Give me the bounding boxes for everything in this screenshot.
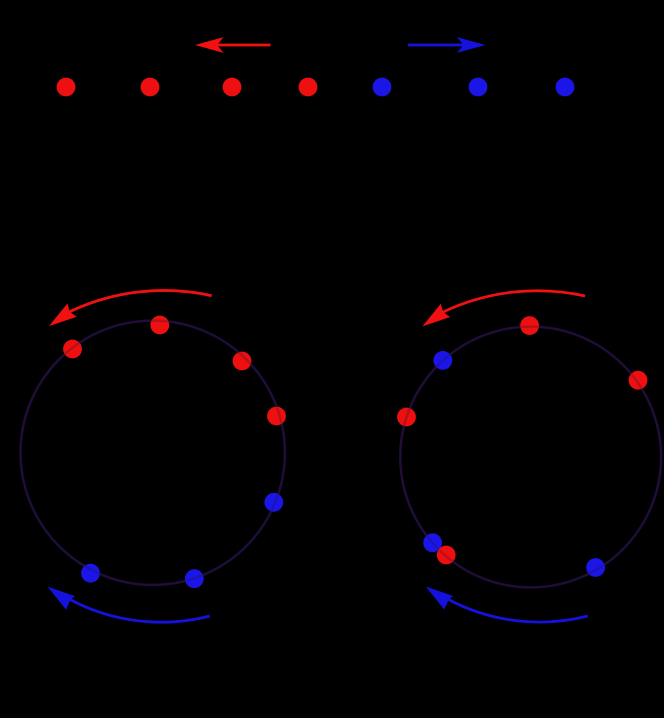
right ring red particle bottom-left (overlapping) — [437, 546, 456, 565]
left ring outline (over layer) — [21, 321, 285, 585]
left ring blue particle right — [264, 493, 283, 512]
right ring red curved arrow (top) — [443, 291, 585, 312]
right ring outline (over layer) — [400, 327, 661, 588]
left ring blue particle bottom-middle — [185, 569, 204, 588]
left ring blue curved arrow (bottom) — [71, 600, 210, 622]
right ring red particle top — [520, 316, 539, 335]
left ring red particle upper-left — [63, 340, 82, 359]
left ring red particle right — [267, 407, 286, 426]
top row blue particle 1 — [373, 78, 392, 97]
top row red particle 1 — [57, 78, 76, 97]
blue straight arrow (pointing right) above top row — [408, 37, 486, 53]
right ring blue particle upper-left — [433, 351, 452, 370]
right ring blue curved arrowhead — [426, 587, 454, 610]
right ring outline (under layer) — [400, 327, 661, 588]
right ring blue curved arrow (bottom) — [449, 600, 588, 622]
left ring blue curved arrowhead — [48, 587, 76, 610]
top row red particle 4 — [299, 78, 318, 97]
right ring red particle right — [629, 371, 648, 390]
top row red particle 3 — [223, 78, 242, 97]
right ring red curved arrowhead — [422, 304, 450, 327]
right ring blue particle bottom-right — [586, 558, 605, 577]
left ring red curved arrowhead — [49, 304, 77, 327]
top row blue particle 2 — [469, 78, 488, 97]
top row red particle 2 — [141, 78, 160, 97]
left ring red particle upper-right — [233, 352, 252, 371]
left ring outline (under layer) — [21, 321, 285, 585]
left ring red particle top — [150, 316, 169, 335]
top row blue particle 3 — [556, 78, 575, 97]
red straight arrow (pointing left) above top row — [195, 37, 271, 53]
right ring blue particle bottom-left — [423, 533, 442, 552]
right ring red particle left — [397, 408, 416, 427]
left ring blue particle bottom-left — [81, 564, 100, 583]
left ring red curved arrow (counterclockwise, top) — [70, 290, 212, 311]
